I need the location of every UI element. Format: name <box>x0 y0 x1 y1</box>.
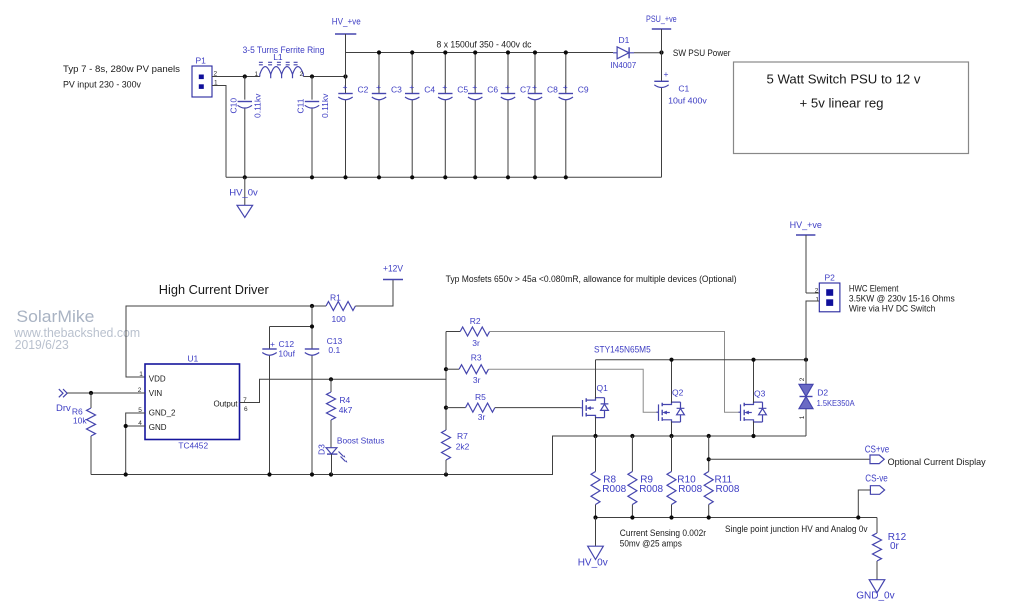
capacitor C1 <box>654 53 707 178</box>
capacitor C13 <box>305 306 343 475</box>
svg-text:R1: R1 <box>330 293 341 303</box>
svg-text:C1: C1 <box>678 84 689 94</box>
svg-text:10uf: 10uf <box>278 349 295 359</box>
ground HV_0v (sense) <box>578 518 608 569</box>
svg-text:C10: C10 <box>228 98 238 114</box>
resistor R10 <box>667 436 703 518</box>
svg-text:+: + <box>442 82 447 92</box>
wire sense 0v rail <box>596 517 878 519</box>
svg-text:GND_0v: GND_0v <box>856 591 894 602</box>
wire driver 0v rail <box>91 436 596 475</box>
svg-text:6: 6 <box>244 406 248 413</box>
wire GND pins jumper <box>126 413 145 475</box>
svg-text:Q3: Q3 <box>754 388 766 398</box>
capacitor C6 <box>468 53 498 178</box>
connector P1 <box>192 56 218 98</box>
capacitor C11 <box>295 77 329 178</box>
svg-text:2k2: 2k2 <box>456 442 470 452</box>
svg-text:C3: C3 <box>391 85 402 95</box>
capacitor C7 <box>501 53 531 178</box>
diode D1 <box>610 35 636 70</box>
svg-text:2: 2 <box>799 377 806 381</box>
wire P1 pin2 to L1 <box>212 76 260 78</box>
svg-text:+ 5v linear reg: + 5v linear reg <box>800 96 884 111</box>
wire VDD rail <box>126 306 326 377</box>
svg-text:R008: R008 <box>602 484 626 495</box>
svg-text:0.11kv: 0.11kv <box>320 93 330 118</box>
svg-text:+: + <box>270 339 275 349</box>
resistor R9 <box>628 436 664 518</box>
svg-text:Typ Mosfets 650v > 45a <0.080m: Typ Mosfets 650v > 45a <0.080mR, allowan… <box>446 274 737 285</box>
svg-text:PSU_+ve: PSU_+ve <box>646 14 677 25</box>
resistor R5 <box>446 392 581 422</box>
resistor R12 <box>873 518 907 580</box>
LED D3 Boost Status <box>317 436 385 475</box>
power flag HV_+ve (element) <box>790 220 822 293</box>
wire CS+ve <box>709 458 870 460</box>
resistor R11 <box>704 436 740 518</box>
resistor R4 <box>327 379 353 447</box>
svg-text:1: 1 <box>799 415 806 419</box>
IC U1 TC4452 <box>138 354 248 451</box>
svg-text:D2: D2 <box>817 388 828 398</box>
power flag +12V <box>383 264 404 280</box>
svg-text:C4: C4 <box>424 85 435 95</box>
resistor R6 <box>72 393 96 475</box>
svg-text:C6: C6 <box>487 85 498 95</box>
input port Drv <box>56 389 71 414</box>
svg-text:Output: Output <box>213 399 238 408</box>
wire drain rail <box>596 359 807 361</box>
capacitor C5 <box>438 53 468 178</box>
svg-text:1: 1 <box>139 371 143 378</box>
svg-text:+12V: +12V <box>383 264 404 275</box>
svg-text:+: + <box>664 69 669 79</box>
node junction R6 <box>89 391 93 395</box>
svg-text:0.11kv: 0.11kv <box>253 93 263 118</box>
gate bus vertical <box>445 332 447 431</box>
ground HV_0v (input) <box>229 177 258 217</box>
wire Drv to VIN <box>67 392 145 394</box>
svg-text:3-5 Turns Ferrite Ring: 3-5 Turns Ferrite Ring <box>243 45 325 56</box>
capacitor C2 <box>338 53 368 178</box>
svg-text:3r: 3r <box>472 338 480 348</box>
svg-text:C12: C12 <box>279 339 295 349</box>
svg-text:+: + <box>563 82 568 92</box>
svg-text:1: 1 <box>255 71 259 78</box>
resistor R2 <box>446 316 741 412</box>
svg-text:0.1: 0.1 <box>328 345 340 355</box>
svg-text:3r: 3r <box>473 375 481 385</box>
svg-text:R7: R7 <box>457 431 468 441</box>
node junction P1/C10 <box>243 74 247 78</box>
node junction CS+ tap <box>707 457 711 461</box>
svg-text:PV input 230 - 300v: PV input 230 - 300v <box>63 80 141 91</box>
svg-text:0r: 0r <box>890 541 900 552</box>
svg-text:5 Watt Switch PSU to 12 v: 5 Watt Switch PSU to 12 v <box>767 72 922 87</box>
node junction GND pins <box>124 424 128 428</box>
resistor R1 <box>326 293 355 325</box>
TVS diode D2 <box>799 360 855 436</box>
svg-text:+: + <box>505 82 510 92</box>
svg-text:U1: U1 <box>187 354 198 364</box>
svg-text:Drv: Drv <box>56 403 71 414</box>
node dots on driver 0v rail <box>124 472 449 476</box>
svg-text:Boost Status: Boost Status <box>337 436 385 446</box>
svg-text:+: + <box>532 82 537 92</box>
svg-text:HV_+ve: HV_+ve <box>332 17 361 28</box>
wire R1 to +12V <box>355 280 393 307</box>
wire source rail <box>596 435 807 437</box>
svg-text:D3: D3 <box>317 444 327 455</box>
inductor L1 <box>255 52 304 78</box>
svg-text:STY145N65M5: STY145N65M5 <box>594 344 651 355</box>
svg-text:4k7: 4k7 <box>339 405 353 415</box>
output port CS+ve <box>865 445 890 464</box>
ground GND_0v <box>856 580 894 602</box>
capacitor C3 <box>372 53 402 178</box>
svg-text:Optional Current Display: Optional Current Display <box>888 457 986 468</box>
svg-text:P2: P2 <box>825 273 836 283</box>
note: HWC Element <box>849 284 955 315</box>
svg-text:+: + <box>472 82 477 92</box>
svg-text:1.5KE350A: 1.5KE350A <box>817 398 855 408</box>
svg-text:HV_0v: HV_0v <box>229 188 258 199</box>
svg-text:R4: R4 <box>339 395 350 405</box>
svg-text:50mv @25 amps: 50mv @25 amps <box>620 538 682 549</box>
svg-text:+: + <box>343 82 348 92</box>
svg-text:C9: C9 <box>578 85 589 95</box>
svg-text:2: 2 <box>300 71 304 78</box>
svg-text:HV_+ve: HV_+ve <box>790 220 822 231</box>
node junction R4 tap <box>329 377 333 381</box>
capacitor C10 <box>228 77 262 178</box>
svg-text:1: 1 <box>815 296 819 303</box>
svg-text:GND: GND <box>149 423 167 432</box>
capacitor C4 <box>405 53 435 178</box>
wire L1 to C2 node <box>303 76 345 78</box>
node dots on HV rail <box>377 50 568 54</box>
node dots on 0v rail <box>243 175 568 179</box>
node junction HV bus <box>343 74 347 78</box>
transistor Q1 <box>581 360 609 436</box>
wire D1 to PSU node <box>634 52 662 54</box>
info box: 5 Watt Switch PSU <box>734 62 969 154</box>
svg-text:R3: R3 <box>471 353 482 363</box>
wire 0v bottom rail <box>226 176 662 178</box>
svg-text:CS+ve: CS+ve <box>865 445 890 456</box>
svg-text:Single point junction HV and A: Single point junction HV and Analog 0v <box>725 524 868 535</box>
svg-text:SW PSU Power: SW PSU Power <box>673 48 731 59</box>
svg-text:TC4452: TC4452 <box>178 441 208 451</box>
svg-text:VDD: VDD <box>149 375 166 384</box>
svg-text:IN4007: IN4007 <box>610 60 636 70</box>
svg-text:VIN: VIN <box>149 389 163 398</box>
power flag PSU_+ve <box>646 14 677 53</box>
svg-text:Q1: Q1 <box>597 383 609 393</box>
svg-text:100: 100 <box>332 314 346 324</box>
svg-text:C8: C8 <box>547 85 558 95</box>
svg-text:CS-ve: CS-ve <box>865 474 888 485</box>
svg-text:D1: D1 <box>619 35 630 45</box>
watermark SolarMike <box>13 307 140 352</box>
svg-text:2019/6/23: 2019/6/23 <box>15 338 69 352</box>
power flag HV_+ve <box>332 17 361 53</box>
node junction PSU <box>659 50 663 54</box>
svg-text:10k: 10k <box>73 416 87 426</box>
node junction C12/C13 <box>310 324 314 328</box>
resistor R3 <box>446 353 659 413</box>
svg-text:HV_0v: HV_0v <box>578 558 608 569</box>
svg-text:GND_2: GND_2 <box>149 409 176 418</box>
svg-text:Wire via HV DC Switch: Wire via HV DC Switch <box>849 304 935 315</box>
svg-text:SolarMike: SolarMike <box>16 307 94 326</box>
output port CS-ve <box>858 474 888 518</box>
svg-text:R2: R2 <box>470 316 481 326</box>
capacitor C12 <box>262 327 312 475</box>
svg-text:High Current Driver: High Current Driver <box>159 282 270 297</box>
svg-text:+: + <box>376 82 381 92</box>
transistor Q2 <box>657 360 685 436</box>
node junction C13/rail <box>310 304 314 308</box>
svg-text:C2: C2 <box>358 85 369 95</box>
svg-text:P1: P1 <box>196 56 207 66</box>
svg-text:Q2: Q2 <box>672 388 684 398</box>
resistor R8 <box>591 436 627 518</box>
svg-text:R008: R008 <box>716 484 740 495</box>
svg-text:10uf 400v: 10uf 400v <box>668 96 707 106</box>
svg-text:8 x 1500uf 350 - 400v dc: 8 x 1500uf 350 - 400v dc <box>437 40 532 51</box>
svg-text:C11: C11 <box>295 98 305 113</box>
wire HV rail to D1 <box>346 52 614 54</box>
svg-text:3r: 3r <box>478 412 486 422</box>
connector P2 <box>806 273 840 360</box>
wire U1 output <box>240 379 447 402</box>
svg-text:Typ 7 - 8s, 280w PV panels: Typ 7 - 8s, 280w PV panels <box>63 64 180 75</box>
node junction C11 <box>310 74 314 78</box>
svg-text:R008: R008 <box>678 484 702 495</box>
svg-text:Current Sensing 0.002r: Current Sensing 0.002r <box>620 528 706 539</box>
wire P1 pin1 down to 0v rail <box>212 86 226 178</box>
capacitor C9 <box>559 53 589 178</box>
svg-text:R5: R5 <box>475 392 486 402</box>
resistor R7 <box>442 430 470 475</box>
svg-text:R008: R008 <box>639 484 663 495</box>
svg-text:C5: C5 <box>457 85 468 95</box>
svg-text:+: + <box>409 82 414 92</box>
transistor Q3 <box>739 360 767 436</box>
capacitor C8 <box>528 53 558 178</box>
